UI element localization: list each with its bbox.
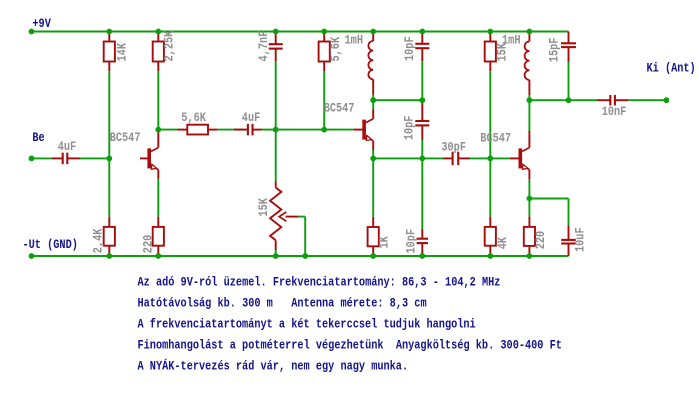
resistor R7 5,6K: [323, 32, 325, 42]
terminal Be: [29, 156, 35, 162]
capacitor C7 30pF: [443, 157, 453, 159]
svg-text:10pF: 10pF: [403, 229, 418, 254]
wire 15K to Q3 base node: [489, 71, 491, 158]
svg-text:15K: 15K: [256, 198, 271, 217]
svg-text:15pF: 15pF: [546, 37, 561, 62]
wire Q1 collector node to 5,6K: [158, 129, 177, 131]
capacitor C3 4,7nF: [275, 32, 277, 45]
svg-text:5,6K: 5,6K: [181, 110, 206, 125]
wire Q3 collector to output: [529, 99, 568, 101]
svg-text:10pF: 10pF: [402, 36, 417, 61]
wire 2,25K to Q1 collector: [157, 71, 159, 129]
svg-text:Az adó 9V-ról üzemel. Frekvenc: Az adó 9V-ról üzemel. Frekvenciatartomán…: [138, 275, 501, 290]
junction Q2 collector node: [370, 97, 376, 103]
junction Q1 collector node: [155, 127, 161, 133]
svg-text:14K: 14K: [114, 43, 129, 62]
junction 14K/+9V: [106, 29, 112, 35]
svg-text:2,25K: 2,25K: [162, 31, 177, 62]
capacitor C5 10pF middle: [421, 100, 423, 121]
resistor R3 2,25K: [157, 32, 159, 42]
capacitor C10 10nF: [597, 99, 610, 101]
svg-text:+9V: +9V: [32, 16, 51, 31]
junction 5,6K/+9V: [321, 29, 327, 35]
svg-text:4uF: 4uF: [58, 139, 77, 154]
svg-text:1mH: 1mH: [345, 33, 364, 48]
svg-text:10nF: 10nF: [602, 104, 627, 119]
junction 2,4K/GND: [106, 253, 112, 259]
wire wiper to ground: [298, 216, 305, 218]
inductor L1 1mH: [372, 32, 374, 42]
wire to 30pF: [422, 157, 443, 159]
junction L1/+9V: [370, 29, 376, 35]
junction pot/GND: [273, 253, 279, 259]
svg-text:BC547: BC547: [110, 130, 141, 145]
junction Q2 emitter node: [370, 156, 376, 162]
junction 10pF top node: [419, 97, 425, 103]
capacitor C4 10pF top: [421, 32, 423, 44]
svg-text:4,7nF: 4,7nF: [256, 31, 271, 62]
svg-text:30pF: 30pF: [441, 139, 466, 154]
transistor Q1 BC547: [140, 157, 151, 159]
junction Q3 base node: [487, 156, 493, 162]
junction pot/4,7nF node: [273, 127, 279, 133]
transistor Q2 BC547: [354, 129, 366, 131]
svg-text:10pF: 10pF: [402, 115, 417, 140]
terminal -Ut GND: [29, 253, 35, 259]
junction 10pF/GND: [419, 253, 425, 259]
wire Q2 collector row: [373, 99, 422, 101]
svg-text:1mH: 1mH: [502, 33, 521, 48]
svg-text:A frekvenciatartományt a két t: A frekvenciatartományt a két tekerccsel …: [138, 317, 476, 332]
junction Q2 base node: [321, 127, 327, 133]
resistor R5 5,6K horizontal: [178, 129, 188, 131]
capacitor C9 10uF electrolytic: [568, 225, 570, 239]
wire 4uF to pot node: [262, 129, 276, 131]
junction wiper/GND: [302, 253, 308, 259]
junction 15pF output node: [566, 97, 572, 103]
svg-text:5,6K: 5,6K: [328, 37, 343, 62]
terminal +9V: [29, 29, 35, 35]
svg-text:BC547: BC547: [480, 130, 511, 145]
capacitor C1 4uF input: [52, 157, 63, 159]
junction 4K/GND: [487, 253, 493, 259]
junction Q1 base node: [106, 156, 112, 162]
wire Q1 emitter to 220: [157, 179, 159, 217]
ground rail wire: [32, 255, 569, 257]
junction 2,25K/+9V: [155, 29, 161, 35]
wire Q3 emitter to 10uF: [529, 198, 568, 200]
wire pot node to 5,6K node: [276, 129, 325, 131]
svg-text:Be: Be: [32, 130, 44, 145]
svg-text:BC547: BC547: [324, 100, 355, 115]
svg-text:2,4K: 2,4K: [91, 228, 106, 253]
resistor R1 14K: [108, 32, 110, 42]
transistor Q3 BC547: [490, 157, 510, 159]
inductor L2 1mH: [528, 32, 530, 42]
svg-text:A NYÁK-tervezés rád vár, nem e: A NYÁK-tervezés rád vár, nem egy nagy mu…: [138, 359, 409, 374]
wire 14K to base node: [108, 71, 110, 158]
wire 30pF to Q3 base node: [470, 157, 490, 159]
junction 220/GND: [155, 253, 161, 259]
junction Q3 collector node: [527, 97, 533, 103]
svg-text:4uF: 4uF: [242, 110, 261, 125]
junction 10pF mid node: [419, 156, 425, 162]
junction 1K/GND: [370, 253, 376, 259]
capacitor C8 15pF: [568, 32, 570, 44]
svg-text:220: 220: [140, 235, 155, 254]
svg-text:Hatótávolság kb. 300 m Anten: Hatótávolság kb. 300 m Antenna mérete: 8…: [138, 296, 427, 311]
capacitor C2 4uF coupling: [234, 129, 248, 131]
svg-text:-Ut (GND): -Ut (GND): [23, 237, 78, 252]
junction 10pF/+9V: [419, 29, 425, 35]
pot wiper arrow: [279, 212, 286, 221]
wire 5,6K to 4uF: [218, 129, 244, 131]
+9V rail wire: [32, 31, 569, 33]
potentiometer R6 15K: [275, 130, 277, 182]
terminal Ki (Ant): [664, 97, 670, 103]
resistor R10 4K: [489, 158, 491, 216]
junction 15K/+9V: [487, 29, 493, 35]
svg-text:Ki (Ant): Ki (Ant): [647, 60, 696, 75]
junction 4,7nF/+9V: [273, 29, 279, 35]
wire 4,7nF to node: [275, 61, 277, 129]
junction L2/+9V: [527, 29, 533, 35]
junction Q3 emitter node: [527, 196, 533, 202]
Be input wire: [32, 157, 53, 159]
wire 5,6K to Q2 base node: [323, 71, 325, 129]
svg-text:4K: 4K: [495, 237, 510, 249]
wire to Q2 base: [324, 129, 354, 131]
capacitor C6 10pF bottom: [421, 158, 423, 229]
svg-text:220: 220: [533, 231, 548, 250]
resistor R4 220: [157, 217, 159, 227]
resistor R9 15K: [489, 32, 491, 42]
svg-text:1K: 1K: [377, 236, 392, 248]
junction 220b/GND: [527, 253, 533, 259]
resistor R2 2,4K: [108, 158, 110, 216]
resistor R11 220: [528, 199, 530, 217]
wire 10nF to antenna: [629, 99, 667, 101]
wire Q2 emitter row: [373, 157, 422, 159]
svg-text:Finomhangolást a potméterrel v: Finomhangolást a potméterrel végezhetünk…: [138, 338, 562, 353]
svg-text:10uF: 10uF: [572, 227, 587, 252]
resistor R8 1K: [372, 158, 374, 216]
